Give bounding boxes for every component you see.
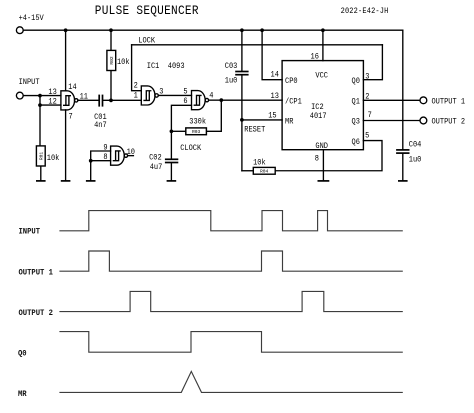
svg-text:2: 2 <box>134 82 139 91</box>
svg-text:+4-15V: +4-15V <box>19 15 45 24</box>
svg-text:C02: C02 <box>149 154 162 163</box>
svg-text:12: 12 <box>48 98 57 107</box>
svg-text:OUTPUT 1: OUTPUT 1 <box>432 98 466 107</box>
wire gate4 pin8 <box>91 160 111 162</box>
wire +V rail drop to C04 <box>402 30 404 149</box>
junction rail VCC16 <box>321 28 325 32</box>
wire node to IC2 /CP1 pin13 <box>221 99 282 101</box>
svg-text:R04: R04 <box>260 169 269 175</box>
svg-text:3: 3 <box>365 73 370 82</box>
svg-text:4017: 4017 <box>310 113 327 122</box>
svg-text:/CP1: /CP1 <box>285 98 302 107</box>
svg-text:13: 13 <box>48 89 57 98</box>
junction rail R02 <box>109 28 113 32</box>
svg-text:9: 9 <box>103 144 108 153</box>
svg-text:1u0: 1u0 <box>225 77 238 86</box>
wire C01 to gate2 pin1 <box>103 99 141 101</box>
svg-text:3: 3 <box>159 88 164 97</box>
wire gate2 output to gate3 pin5 <box>158 94 191 96</box>
wire clock node to R03 left <box>171 130 185 132</box>
wire gate4 tie to ground <box>90 161 92 181</box>
wire IC2 Q0 pin3 to LOCK <box>363 45 382 80</box>
svg-text:4u7: 4u7 <box>150 164 163 173</box>
terminal OUTPUT 2 <box>420 117 427 124</box>
svg-text:11: 11 <box>80 93 89 102</box>
wave OUTPUT 1 trace <box>59 251 402 271</box>
wire MR pin15 <box>242 119 282 121</box>
svg-text:CP0: CP0 <box>285 78 298 87</box>
svg-text:INPUT: INPUT <box>19 227 41 237</box>
svg-text:Q0: Q0 <box>18 349 27 359</box>
junction rail gate1 pin14 <box>64 28 68 32</box>
nand gate IC1 C (4093 Schmitt NAND) pins 5,6 out 4 <box>192 91 209 110</box>
capacitor C04 1u0 <box>396 150 409 153</box>
ground C04 <box>398 180 408 182</box>
wave OUTPUT 2 trace <box>59 291 402 311</box>
svg-text:2022-E42-JH: 2022-E42-JH <box>341 8 389 17</box>
svg-text:C04: C04 <box>409 141 422 150</box>
capacitor C01 4n7 <box>99 95 102 107</box>
svg-text:IC1 4093: IC1 4093 <box>147 63 185 72</box>
wire R02 top to rail <box>110 30 112 50</box>
wire R01 bottom to ground <box>40 166 42 180</box>
wire +V supply rail <box>23 29 403 31</box>
svg-text:OUTPUT 2: OUTPUT 2 <box>432 118 466 127</box>
wire IC2 CP0 pin14 to rail <box>262 30 282 79</box>
wire gate4 inputs tie <box>91 151 111 161</box>
wire R02 bottom to node <box>110 71 112 101</box>
svg-text:10: 10 <box>127 149 136 158</box>
ground C02 <box>167 180 177 182</box>
IC IC2 4017 decade counter body <box>282 61 363 150</box>
svg-text:10k: 10k <box>117 59 130 68</box>
svg-text:VCC: VCC <box>315 72 328 81</box>
wire IC2 Q3 pin7 to output2 <box>363 120 420 122</box>
wire input pulldown vertical <box>39 96 41 146</box>
wire input to gate1 pin13 <box>23 95 61 97</box>
svg-text:1u0: 1u0 <box>409 156 422 165</box>
wire MR node to R04 left <box>242 170 253 172</box>
svg-text:OUTPUT 2: OUTPUT 2 <box>19 308 54 318</box>
svg-text:LOCK: LOCK <box>138 37 155 46</box>
svg-text:4: 4 <box>209 92 214 101</box>
terminal OUTPUT 1 <box>420 97 427 104</box>
svg-text:8: 8 <box>315 155 320 164</box>
svg-text:4n7: 4n7 <box>94 121 107 130</box>
nand gate IC1 D (4093 Schmitt NAND) pins 9,8 out 10 <box>111 146 128 165</box>
capacitor C03 1u0 <box>235 72 248 75</box>
resistor R02 10k <box>107 50 116 70</box>
wire IC2 Q1 pin2 to output1 <box>363 99 420 101</box>
junction R02 gate2 pin1 <box>109 99 113 103</box>
wire IC2 GND pin8 to ground <box>322 150 324 181</box>
svg-text:PULSE SEQUENCER: PULSE SEQUENCER <box>95 3 199 18</box>
wave MR trace <box>59 371 402 392</box>
wire C03 top to rail <box>241 30 243 70</box>
svg-text:R03: R03 <box>192 129 201 135</box>
svg-text:R02: R02 <box>109 56 115 65</box>
svg-text:IC2: IC2 <box>311 104 324 113</box>
wire R03 right to feedback <box>206 100 221 131</box>
wire R04 right to Q6 <box>275 141 382 171</box>
junction pin12 R01 <box>38 103 42 107</box>
resistor R04 10k <box>253 167 275 174</box>
svg-text:RESET: RESET <box>244 126 265 135</box>
wire LOCK line <box>132 44 383 46</box>
svg-text:GND: GND <box>315 142 328 151</box>
svg-text:13: 13 <box>271 93 280 102</box>
junction clock node <box>170 129 174 133</box>
wire gate1 pin14 to rail <box>65 30 67 91</box>
junction input pin13 <box>38 94 42 98</box>
junction rail C03 <box>240 28 244 32</box>
svg-text:10k: 10k <box>47 155 60 164</box>
wire C03 bottom to MR node <box>241 76 243 171</box>
svg-text:6: 6 <box>183 98 188 107</box>
svg-text:14: 14 <box>68 84 77 93</box>
resistor R01 10k <box>36 146 45 166</box>
wire gate3 pin6 loop <box>171 105 191 158</box>
ground IC2 pin8 <box>318 180 330 182</box>
svg-text:14: 14 <box>271 71 280 80</box>
svg-text:MR: MR <box>18 390 27 400</box>
ground gate4 inputs <box>86 180 96 182</box>
wire IC2 VCC pin16 to rail <box>322 30 324 60</box>
wire C02 bottom to ground <box>170 163 172 180</box>
svg-text:MR: MR <box>285 118 294 127</box>
svg-text:OUTPUT 1: OUTPUT 1 <box>19 268 54 278</box>
svg-text:16: 16 <box>311 53 320 62</box>
svg-text:7: 7 <box>69 113 73 122</box>
terminal +4-15V <box>16 27 23 34</box>
svg-text:10k: 10k <box>253 159 266 168</box>
junction rail CP0 <box>260 28 264 32</box>
terminal INPUT <box>16 92 23 99</box>
svg-text:15: 15 <box>268 112 277 121</box>
svg-text:330k: 330k <box>189 118 206 127</box>
nand gate IC1 B (4093 Schmitt NAND) pins 2,1 out 3 <box>141 86 158 105</box>
svg-text:2: 2 <box>365 93 370 102</box>
junction MR reset node <box>240 118 244 122</box>
svg-text:Q6: Q6 <box>352 139 361 148</box>
svg-text:C03: C03 <box>225 62 238 71</box>
wire LOCK to gate2 pin2 <box>132 45 142 91</box>
wire gate1 output to C01 <box>78 99 98 101</box>
svg-text:Q1: Q1 <box>352 98 361 107</box>
wire gate1 pin7 to ground <box>65 110 67 180</box>
svg-text:1: 1 <box>134 92 139 101</box>
svg-text:8: 8 <box>103 154 108 163</box>
junction gate4 pin8 <box>89 159 93 163</box>
nand gate IC1 A (4093 Schmitt NAND) pins 13,12 out 11 <box>61 91 78 110</box>
ground R01 <box>36 180 46 182</box>
capacitor C02 4u7 <box>165 159 178 162</box>
svg-text:7: 7 <box>368 112 372 121</box>
svg-text:Q0: Q0 <box>352 78 361 87</box>
svg-text:5: 5 <box>183 88 188 97</box>
svg-text:CLOCK: CLOCK <box>180 145 201 154</box>
wire C04 bottom to ground <box>402 154 404 181</box>
ground gate1 pin7 <box>61 180 71 182</box>
svg-text:R01: R01 <box>38 152 44 161</box>
resistor R03 330k <box>186 128 207 135</box>
wave INPUT trace <box>59 211 402 231</box>
junction gate3 output node <box>219 98 223 102</box>
svg-text:Q3: Q3 <box>352 118 361 127</box>
wave Q0 trace <box>59 332 402 353</box>
wire gate1 pin12 <box>40 104 61 106</box>
svg-text:INPUT: INPUT <box>19 78 40 87</box>
svg-text:5: 5 <box>365 132 370 141</box>
wire gate4 output stub <box>128 155 134 157</box>
wire gate3 output to node <box>209 99 222 101</box>
